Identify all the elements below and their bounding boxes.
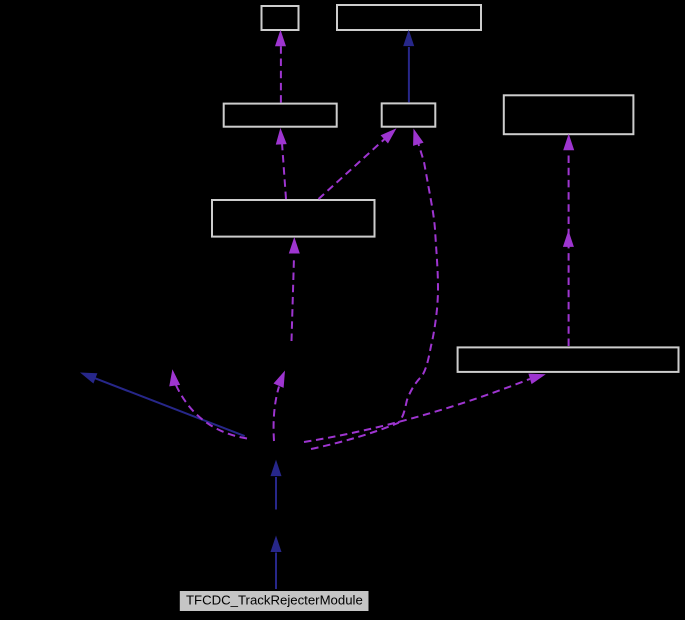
purple usage edge E8: hub up-left to hidden node (dashed curve) (167, 369, 247, 439)
main node box B8: TFCDC_TrackRejecterModule (179, 590, 370, 612)
node box B6 (row3 two-line, label hidden) (212, 200, 375, 237)
blue inheritance edge E4: B4 up to B2 (403, 30, 414, 103)
purple usage edge E10: hidden node up to B6 (dashed) (289, 237, 300, 341)
purple usage edge E13: hub long curve up to B4 (dashed) (311, 127, 438, 449)
blue inheritance edge E1: TFCDC_TrackRejecterModule up to hidden node 1 (271, 536, 282, 590)
blue inheritance edge E3: hub diagonal up-left to hidden node (78, 367, 245, 436)
node box B4 (row2 middle, label hidden) (382, 103, 436, 126)
purple usage edge E5: B3 up to B1 (dashed) (275, 30, 286, 103)
purple usage edge E12: hub right to B7 (dashed) (304, 369, 547, 442)
node box B5 (row2 right two-line, label hidden) (504, 95, 634, 134)
purple usage edge E7: B6 diagonal up-right to B4 (dashed) (319, 124, 401, 199)
svg-text:TFCDC_TrackRejecterModule: TFCDC_TrackRejecterModule (186, 592, 363, 607)
purple usage edge E9: hub up to hidden node below B6 (dashed curve) (273, 368, 290, 441)
blue inheritance edge E2: hidden node 1 up to hub (271, 460, 282, 510)
node box B2 (top wide, label hidden) (337, 5, 481, 30)
purple usage edge E11: B7 up to B5 (dashed, two arrowheads) (563, 134, 574, 346)
purple usage edge E6: B6 up to B3 (dashed) (275, 128, 287, 199)
node box B7 (row4 right wide, label hidden) (458, 347, 679, 372)
node box B3 (row2 left, label hidden) (224, 104, 337, 127)
node box B1 (top small, label hidden) (262, 6, 299, 30)
